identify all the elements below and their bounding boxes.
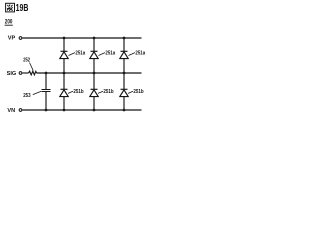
leader from 252 to resistor (30, 63, 34, 71)
capacitor 253 (42, 73, 51, 110)
leader from 253 to capacitor (33, 91, 41, 94)
svg-text:SIG: SIG (7, 71, 17, 77)
terminal circle VP (19, 37, 22, 40)
svg-text:200: 200 (5, 19, 13, 26)
wire VP rail (22, 37, 141, 39)
label 251a column1 (69, 53, 76, 56)
figure title box 図 (6, 3, 15, 12)
wire SIG lead (22, 72, 28, 74)
junction VP col1 (63, 37, 66, 40)
terminal circle VN (19, 109, 22, 112)
diode 251b column3 (120, 73, 128, 110)
wire VN rail (22, 109, 141, 111)
terminal circle SIG (19, 72, 22, 75)
svg-text:251b: 251b (133, 89, 143, 95)
svg-text:251a: 251a (75, 51, 85, 57)
label 251a column2 (99, 53, 106, 56)
svg-text:252: 252 (23, 58, 30, 64)
resistor 252 zigzag (29, 71, 37, 75)
diode 251b column1 (60, 73, 68, 110)
svg-text:253: 253 (23, 93, 30, 99)
diode 251b column2 (90, 73, 98, 110)
svg-text:VN: VN (7, 108, 15, 114)
label 251a column3 (129, 53, 136, 56)
junction VN col3 (123, 109, 126, 112)
junction VN col1 (63, 109, 66, 112)
wire SIG rail (37, 72, 142, 74)
svg-text:251a: 251a (135, 51, 145, 57)
junction VP col2 (93, 37, 96, 40)
label 251b column1 (68, 91, 73, 93)
junction VN col2 (93, 109, 96, 112)
junction SIG cap (45, 72, 48, 75)
diode 251a column2 (90, 38, 98, 73)
label 251b column2 (98, 91, 103, 93)
junction SIG col3 (123, 72, 126, 75)
diode 251a column1 (60, 38, 68, 73)
junction VN cap (45, 109, 48, 112)
junction SIG col2 (93, 72, 96, 75)
svg-text:251b: 251b (73, 89, 83, 95)
junction SIG col1 (63, 72, 66, 75)
diode 251a column3 (120, 38, 128, 73)
label 251b column3 (128, 91, 133, 93)
junction VP col3 (123, 37, 126, 40)
svg-text:19B: 19B (16, 3, 29, 14)
svg-text:251a: 251a (105, 51, 115, 57)
svg-text:VP: VP (8, 35, 16, 41)
svg-text:251b: 251b (103, 89, 113, 95)
